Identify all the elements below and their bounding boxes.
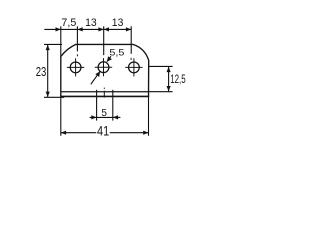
svg-text:12,5: 12,5: [170, 73, 186, 86]
svg-text:13: 13: [112, 17, 124, 29]
svg-text:7,5: 7,5: [61, 17, 76, 29]
svg-text:13: 13: [85, 17, 97, 29]
svg-text:41: 41: [97, 123, 109, 138]
svg-text:5,5: 5,5: [109, 48, 124, 58]
svg-text:23: 23: [36, 64, 47, 79]
svg-text:5: 5: [101, 108, 107, 119]
